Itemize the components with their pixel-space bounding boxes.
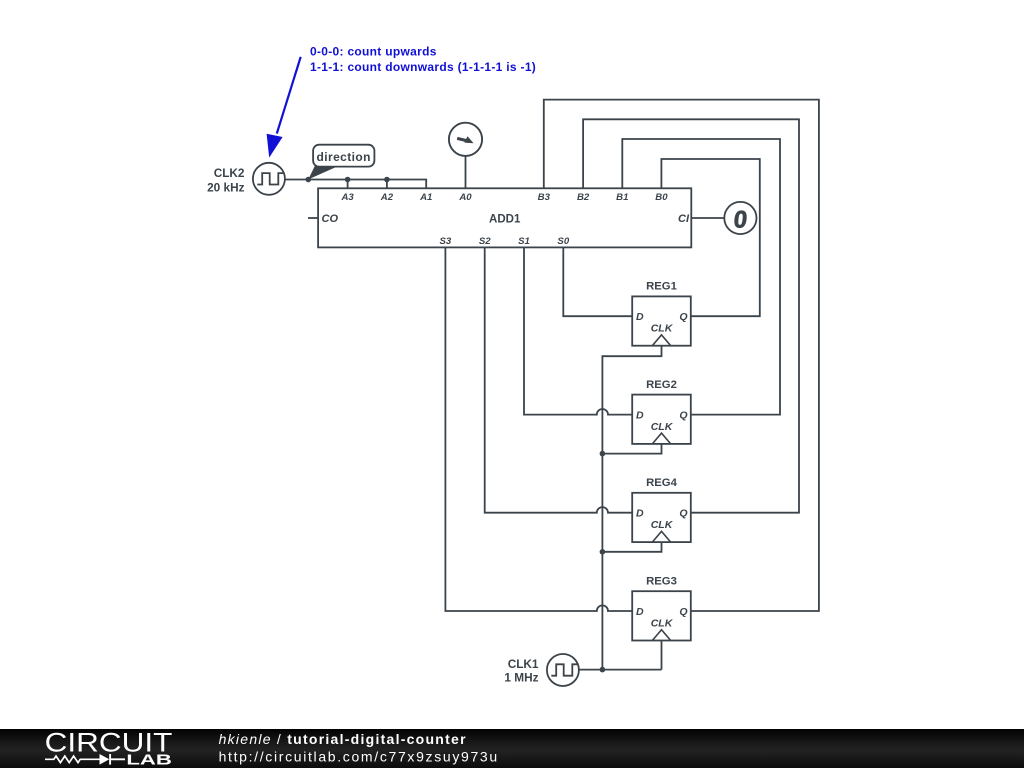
wire B1 net — [622, 139, 780, 415]
svg-text:CLK: CLK — [651, 421, 674, 433]
svg-text:S0: S0 — [557, 236, 569, 247]
svg-text:A0: A0 — [458, 192, 472, 203]
footer bar — [0, 729, 1024, 768]
svg-text:Q: Q — [679, 606, 687, 618]
wire A2 stub — [386, 180, 388, 189]
svg-text:REG4: REG4 — [646, 477, 677, 489]
wire ammeter to A0 — [465, 156, 467, 188]
svg-text:CO: CO — [322, 213, 339, 225]
svg-text:Q: Q — [679, 508, 687, 520]
label CLK1 value — [504, 657, 539, 684]
svg-text:CI: CI — [678, 213, 690, 225]
svg-text:CLK2: CLK2 — [214, 166, 245, 180]
annotation arrow — [267, 57, 301, 158]
wire B2 net — [583, 119, 799, 512]
wire S1 to REG2 D with hop — [524, 247, 632, 414]
svg-text:Q: Q — [679, 410, 687, 422]
svg-text:A1: A1 — [419, 192, 432, 203]
wire A3 stub — [347, 180, 349, 189]
pin label A3 — [340, 192, 668, 247]
wire REG4 CLK — [602, 542, 661, 552]
logo resistor symbol — [45, 756, 100, 763]
wire REG2 CLK — [602, 444, 661, 454]
svg-text:B2: B2 — [577, 192, 590, 203]
label CLK2 value — [207, 166, 245, 195]
logo diode symbol — [100, 754, 110, 765]
svg-text:S3: S3 — [440, 236, 452, 247]
wire S2 to REG4 D with hop — [485, 247, 633, 512]
wire S3 to REG3 D with hop — [445, 247, 632, 611]
svg-text:B3: B3 — [538, 192, 551, 203]
wire CI to constant — [691, 217, 724, 219]
flag direction — [308, 145, 374, 180]
svg-text:A3: A3 — [340, 192, 354, 203]
node REG4 CLK junction — [600, 549, 606, 555]
wire S0 to REG1 D — [563, 247, 632, 316]
probe ammeter — [449, 123, 482, 156]
svg-text:20 kHz: 20 kHz — [207, 181, 244, 195]
svg-text:S1: S1 — [518, 236, 530, 247]
svg-text:hkienle / tutorial-digital-cou: hkienle / tutorial-digital-counter — [219, 731, 467, 747]
svg-text:B0: B0 — [655, 192, 668, 203]
wire CO stub — [308, 217, 318, 219]
wire CLK2 output to A3/A2/A1 — [285, 180, 426, 189]
svg-text:D: D — [636, 311, 644, 323]
svg-text:REG1: REG1 — [646, 281, 677, 293]
flip-flop REG3 — [632, 575, 691, 640]
svg-text:CLK: CLK — [651, 519, 674, 531]
wire B3 net — [544, 100, 819, 611]
node A3 junction — [345, 177, 351, 183]
wire CLK1 output — [579, 669, 662, 671]
annotation text — [310, 45, 536, 74]
constant 0 source — [724, 202, 756, 234]
svg-text:D: D — [636, 606, 644, 618]
svg-text:1-1-1: count downwards (1-1-1-: 1-1-1: count downwards (1-1-1-1 is -1) — [310, 60, 536, 74]
node REG2 CLK junction — [600, 451, 606, 457]
svg-text:D: D — [636, 410, 644, 422]
wire REG3 CLK — [661, 641, 663, 670]
clock source CLK2 — [253, 163, 285, 195]
flip-flop REG2 — [632, 379, 691, 444]
wire B0 net — [661, 159, 759, 316]
svg-text:REG3: REG3 — [646, 575, 677, 587]
svg-text:CLK1: CLK1 — [508, 657, 539, 671]
svg-text:REG2: REG2 — [646, 379, 677, 391]
svg-text:S2: S2 — [479, 236, 491, 247]
svg-text:CLK: CLK — [651, 618, 674, 630]
pin label CO — [322, 213, 690, 225]
flip-flop REG4 — [632, 477, 691, 542]
svg-text:LAB: LAB — [126, 751, 172, 768]
chip ADD1 — [318, 188, 691, 247]
svg-text:http://circuitlab.com/c77x9zsu: http://circuitlab.com/c77x9zsuy973u — [219, 748, 499, 764]
svg-text:Q: Q — [679, 311, 687, 323]
node direction junction — [306, 177, 312, 183]
svg-text:0: 0 — [732, 206, 748, 233]
node CLK1 junction — [600, 667, 606, 673]
svg-text:1 MHz: 1 MHz — [504, 670, 538, 684]
svg-text:CLK: CLK — [651, 323, 674, 335]
wire REG1 CLK and clock bus vertical — [602, 346, 661, 670]
svg-text:D: D — [636, 508, 644, 520]
clock source CLK1 — [547, 654, 579, 686]
svg-text:ADD1: ADD1 — [489, 213, 521, 225]
flip-flop REG1 — [632, 281, 691, 346]
svg-text:direction: direction — [317, 150, 371, 164]
svg-text:B1: B1 — [616, 192, 628, 203]
svg-text:0-0-0: count upwards: 0-0-0: count upwards — [310, 45, 437, 59]
svg-text:A2: A2 — [380, 192, 394, 203]
node A2 junction — [384, 177, 390, 183]
